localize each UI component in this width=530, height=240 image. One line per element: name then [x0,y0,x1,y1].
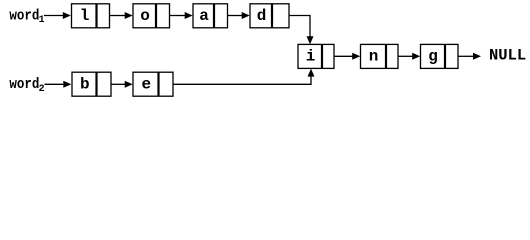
svg-text:i: i [306,48,316,66]
svg-text:1: 1 [39,15,45,26]
svg-text:n: n [369,48,379,66]
label word2 [9,77,44,95]
wire o to a [170,12,193,19]
node i [298,44,334,68]
wire g to NULL [458,53,481,60]
node o [133,4,170,28]
node l [72,4,110,28]
svg-text:g: g [428,48,438,66]
wire n to g [398,53,420,60]
node b [72,72,111,96]
svg-text:d: d [257,7,267,25]
svg-text:l: l [80,7,90,25]
wire e to i (elbow up into bottom of i) [173,69,315,85]
node n [361,44,399,68]
label NULL [489,47,526,65]
svg-text:word: word [9,77,39,93]
wire word2 to node b [45,81,72,88]
svg-text:NULL: NULL [489,47,526,65]
node e [133,72,173,96]
wire word1 to node l [44,12,71,19]
wire l to o [110,12,133,19]
wire d to i (elbow down into top of i) [289,15,314,44]
svg-text:a: a [199,7,209,25]
wire a to d [228,12,250,19]
node d [250,4,289,28]
svg-text:2: 2 [39,84,45,95]
svg-text:o: o [140,7,150,25]
wire i to n [334,53,360,60]
node g [421,44,459,68]
node a [193,4,228,28]
wire b to e [111,81,133,88]
svg-text:word: word [9,9,39,25]
label word1 [9,9,44,26]
svg-text:b: b [80,75,90,93]
svg-text:e: e [141,75,151,93]
